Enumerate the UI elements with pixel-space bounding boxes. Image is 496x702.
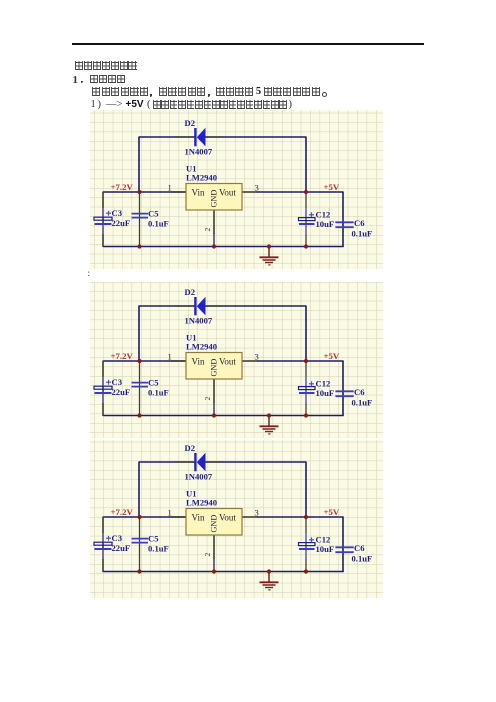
schematic 2: capacitor C12 plus sign vertical xyxy=(311,381,313,386)
schematic 1: diode D2 triangle xyxy=(197,128,206,147)
schematic 1: capacitor C12 bottom plate xyxy=(299,223,315,225)
schematic 3: wire right branch vertical through C6 xyxy=(342,517,344,572)
schematic 3: capacitor C3 plus sign horizontal xyxy=(106,537,111,539)
schematic 2: wire C12 branch vertical xyxy=(305,361,307,416)
schematic 3: IC U1 LM2940 regulator body xyxy=(186,509,242,536)
top horizontal rule xyxy=(72,43,424,45)
schematic 3: ground symbol bar 1 xyxy=(260,581,279,583)
schematic 3: diode D2 anode pin stub xyxy=(206,461,223,463)
svg-text:GND: GND xyxy=(210,515,219,533)
schematic 3: capacitor C3 bottom plate xyxy=(95,548,112,550)
svg-text:+7.2V: +7.2V xyxy=(111,507,134,517)
schematic 1: diode D2 cathode pin stub xyxy=(176,136,195,138)
schematic 2: wire left branch vertical through C3 xyxy=(102,361,104,417)
svg-text:1N4007: 1N4007 xyxy=(185,316,213,326)
schematic 1: IC U1 LM2940 regulator body xyxy=(186,184,242,211)
svg-text:C12: C12 xyxy=(316,534,331,544)
schematic 1: wire bottom ground rail xyxy=(103,246,344,248)
svg-text:Vin: Vin xyxy=(192,513,205,523)
schematic 1: U1 pin 3 stub xyxy=(242,191,258,193)
svg-text:D2: D2 xyxy=(185,287,196,297)
schematic 3: capacitor C12 top plate xyxy=(299,543,316,546)
schematic 1: junction node on ground rail at U1 pin 2 xyxy=(212,244,216,248)
schematic 1: capacitor C3 plus sign horizontal xyxy=(106,212,111,214)
svg-text:LM2940: LM2940 xyxy=(186,173,217,183)
small colon mark between schematic 1 and 2 xyxy=(88,268,91,278)
schematic 2: U1 pin 3 stub xyxy=(242,360,258,362)
schematic 3: wire U1 pin 3 to +5V rail xyxy=(257,516,344,518)
schematic 2: junction node on ground rail at U1 pin 2 xyxy=(212,413,216,417)
schematic 3: ground symbol bar 2 xyxy=(263,584,276,586)
schematic 1: capacitor C12 upper lead xyxy=(305,208,307,218)
schematic 2: capacitor C12 bottom plate xyxy=(299,392,315,394)
schematic 2: wire U1 pin 3 to +5V rail xyxy=(257,360,344,362)
schematic 2: wire right branch vertical through C6 xyxy=(342,361,344,416)
schematic 1: wire U1 pin 3 to +5V rail xyxy=(257,191,344,193)
svg-text:2: 2 xyxy=(203,553,212,557)
schematic 3: wire top rail left segment to diode D2 anode side xyxy=(139,461,195,463)
svg-text:Vout: Vout xyxy=(219,513,236,523)
schematic 2: capacitor C5 bottom plate xyxy=(132,386,149,388)
schematic 1: capacitor C3 top plate xyxy=(94,217,112,220)
schematic 3: wire U1 pin 2 to ground rail xyxy=(213,558,215,572)
schematic 3: diode D2 (1N4007) cathode bar xyxy=(194,453,196,471)
schematic 2: diode D2 (1N4007) cathode bar xyxy=(194,297,196,315)
schematic 1: junction node on ground rail at C12 branch xyxy=(304,244,308,248)
schematic 3: capacitor C3 upper lead xyxy=(102,533,104,543)
schematic 3: wire right vertical (diode rail to +5V rail) xyxy=(305,462,307,518)
svg-text:C12: C12 xyxy=(316,209,331,219)
schematic 1: wire C12 branch vertical xyxy=(305,192,307,247)
svg-text:GND: GND xyxy=(210,359,219,377)
body line 4: 1）—>+5V（为单片机和集成电路芯片大部分供电） xyxy=(91,99,96,110)
heading line 2: "1、 电源模块" xyxy=(73,74,79,86)
schematic 2: ground symbol bar 1 xyxy=(260,425,279,427)
schematic 1: wire top rail left segment to diode D2 anode side xyxy=(139,136,195,138)
schematic 3: diode D2 triangle xyxy=(197,453,206,472)
schematic 2: capacitor C3 plus sign vertical xyxy=(108,380,110,385)
svg-text:2: 2 xyxy=(203,228,212,232)
schematic 2: diode D2 cathode pin stub xyxy=(176,305,195,307)
svg-text:3: 3 xyxy=(255,183,259,193)
schematic 3: U1 pin 3 stub xyxy=(242,516,258,518)
schematic 1: wire +7.2V rail into U1 pin 1 xyxy=(103,191,186,193)
svg-text:0.1uF: 0.1uF xyxy=(148,388,169,398)
schematic 2: IC U1 LM2940 regulator body xyxy=(186,353,242,380)
schematic 3: wire left vertical (+7.2V rail to diode rail) xyxy=(138,462,140,518)
schematic 2: junction node on +7.2V rail at C5 branch xyxy=(137,359,141,363)
schematic 1: ground symbol bar 2 xyxy=(263,259,276,261)
svg-text:22uF: 22uF xyxy=(112,218,131,228)
schematic 2: capacitor C3 top plate xyxy=(94,386,112,389)
schematic 1: diode D2 anode pin stub xyxy=(206,136,223,138)
schematic 1: ground symbol tick xyxy=(268,264,270,266)
schematic 1: capacitor C12 top plate xyxy=(299,218,316,221)
schematic 3: capacitor C6 top plate xyxy=(335,546,353,548)
schematic 3: ground symbol bar 3 xyxy=(265,587,273,589)
svg-text:10uF: 10uF xyxy=(316,544,335,554)
schematic 2: ground symbol bar 2 xyxy=(263,428,276,430)
schematic 1: wire U1 pin 2 to ground rail xyxy=(213,233,215,247)
schematic 2: ground symbol stem xyxy=(268,416,270,426)
svg-text:C6: C6 xyxy=(354,218,365,228)
schematic 1: capacitor C6 bottom plate xyxy=(335,226,353,228)
schematic 2: wire C5 branch vertical xyxy=(139,361,141,416)
svg-text:2: 2 xyxy=(203,397,212,401)
svg-text:1N4007: 1N4007 xyxy=(185,147,213,157)
schematic 1: U1 pin 1 stub xyxy=(171,191,186,193)
schematic 3: capacitor C12 plus sign vertical xyxy=(311,537,313,542)
schematic 3: wire bottom ground rail xyxy=(103,571,344,573)
schematic 1: capacitor C12 lower lead xyxy=(305,224,307,234)
schematic 1: junction node on ground rail at C5 branch xyxy=(137,244,141,248)
schematic 3: capacitor C3 top plate xyxy=(94,542,112,545)
schematic 1: junction node on +7.2V rail at C5 branch xyxy=(137,190,141,194)
schematic 3: junction node on ground rail at U1 pin 2 xyxy=(212,569,216,573)
svg-text:1: 1 xyxy=(168,183,172,193)
svg-text:D2: D2 xyxy=(185,443,196,453)
schematic 2: wire right vertical (diode rail to +5V rail) xyxy=(305,306,307,362)
svg-text:C3: C3 xyxy=(112,533,123,543)
schematic 1: grid sheet background xyxy=(90,110,383,269)
schematic 2: capacitor C12 plus sign horizontal xyxy=(309,383,314,385)
schematic 2: diode D2 triangle xyxy=(197,297,206,316)
svg-text:22uF: 22uF xyxy=(112,387,131,397)
svg-text:+5V: +5V xyxy=(324,182,340,192)
schematic 3: capacitor C3 plus sign vertical xyxy=(108,536,110,541)
schematic 2: capacitor C12 top plate xyxy=(299,387,316,390)
body line 3: 利用电池供电，供电电压为，由此产生 5 种类型的电压。 xyxy=(92,87,100,96)
schematic 3: wire C5 branch vertical xyxy=(139,517,141,572)
schematic 3: capacitor C12 bottom plate xyxy=(299,548,315,550)
svg-text:0.1uF: 0.1uF xyxy=(352,229,373,239)
svg-text:10uF: 10uF xyxy=(316,219,335,229)
schematic 1: capacitor C3 plus sign vertical xyxy=(108,211,110,216)
schematic 2: wire top rail left segment to diode D2 anode side xyxy=(139,305,195,307)
svg-text:C3: C3 xyxy=(112,377,123,387)
svg-text:+5V: +5V xyxy=(324,351,340,361)
schematic 2: wire bottom ground rail xyxy=(103,415,344,417)
schematic 3: wire left branch vertical through C3 xyxy=(102,517,104,573)
schematic 3: junction node on ground rail at ground symbol xyxy=(267,569,271,573)
schematic 3: junction node on ground rail at C5 branch xyxy=(137,569,141,573)
schematic 3: capacitor C3 lower lead xyxy=(102,549,104,559)
svg-text:1: 1 xyxy=(168,352,172,362)
schematic 2: capacitor C3 plus sign horizontal xyxy=(106,381,111,383)
schematic 3: capacitor C6 bottom plate xyxy=(335,551,353,553)
schematic 2: capacitor C3 bottom plate xyxy=(95,392,112,394)
svg-text:LM2940: LM2940 xyxy=(186,342,217,352)
svg-text:C5: C5 xyxy=(148,533,159,543)
schematic 3: junction node on +7.2V rail at C5 branch xyxy=(137,515,141,519)
schematic 1: capacitor C3 lower lead xyxy=(102,224,104,234)
schematic 3: wire top rail right segment from diode D2 xyxy=(205,461,306,463)
schematic 1: wire left branch vertical through C3 xyxy=(102,192,104,248)
schematic 1: diode D2 (1N4007) cathode bar xyxy=(194,128,196,146)
svg-text:3: 3 xyxy=(255,508,259,518)
heading line 1: 智能车硬件电路 (CJK glyph blocks) xyxy=(75,61,83,70)
svg-text:C3: C3 xyxy=(112,208,123,218)
schematic 3: capacitor C12 lower lead xyxy=(305,549,307,559)
svg-text:C12: C12 xyxy=(316,378,331,388)
schematic 3: ground symbol stem xyxy=(268,572,270,582)
svg-text:GND: GND xyxy=(210,190,219,208)
svg-text:C5: C5 xyxy=(148,377,159,387)
schematic 2: capacitor C6 bottom plate xyxy=(335,395,353,397)
svg-text:1: 1 xyxy=(168,508,172,518)
schematic 2: U1 pin 2 stub xyxy=(213,379,215,403)
schematic 3: capacitor C12 upper lead xyxy=(305,533,307,543)
schematic 1: ground symbol bar 1 xyxy=(260,256,279,258)
schematic 1: capacitor C12 plus sign vertical xyxy=(311,212,313,217)
schematic 2: capacitor C12 upper lead xyxy=(305,377,307,387)
schematic 1: wire C5 branch vertical xyxy=(139,192,141,247)
schematic 3: grid sheet background xyxy=(90,440,383,598)
schematic 2: capacitor C3 lower lead xyxy=(102,393,104,403)
schematic 3: wire +7.2V rail into U1 pin 1 xyxy=(103,516,186,518)
schematic 1: wire top rail right segment from diode D2 xyxy=(205,136,306,138)
schematic 1: wire left vertical (+7.2V rail to diode rail) xyxy=(138,137,140,193)
schematic 2: U1 pin 1 stub xyxy=(171,360,186,362)
schematic 1: junction node on ground rail at ground symbol xyxy=(267,244,271,248)
schematic 1: ground symbol stem xyxy=(268,247,270,257)
svg-text:+7.2V: +7.2V xyxy=(111,351,134,361)
svg-text:+7.2V: +7.2V xyxy=(111,182,134,192)
schematic 1: U1 pin 2 stub xyxy=(213,210,215,234)
schematic 1: wire right vertical (diode rail to +5V rail) xyxy=(305,137,307,193)
schematic 2: capacitor C3 upper lead xyxy=(102,377,104,387)
svg-text:C6: C6 xyxy=(354,543,365,553)
schematic 2: wire left vertical (+7.2V rail to diode rail) xyxy=(138,306,140,362)
svg-text:1N4007: 1N4007 xyxy=(185,472,213,482)
schematic 1: capacitor C5 top plate xyxy=(132,213,149,215)
schematic 2: capacitor C6 top plate xyxy=(335,390,353,392)
schematic 2: ground symbol tick xyxy=(268,433,270,435)
schematic 3: U1 pin 2 stub xyxy=(213,535,215,559)
schematic 2: junction node on ground rail at ground symbol xyxy=(267,413,271,417)
schematic 1: capacitor C3 upper lead xyxy=(102,208,104,218)
svg-text:Vin: Vin xyxy=(192,357,205,367)
svg-text:0.1uF: 0.1uF xyxy=(148,219,169,229)
schematic 2: ground symbol bar 3 xyxy=(265,431,273,433)
schematic 1: capacitor C3 bottom plate xyxy=(95,223,112,225)
schematic 1: capacitor C5 bottom plate xyxy=(132,217,149,219)
svg-text:3: 3 xyxy=(255,352,259,362)
schematic 2: junction node on ground rail at C12 branch xyxy=(304,413,308,417)
schematic 2: diode D2 anode pin stub xyxy=(206,305,223,307)
svg-text:C5: C5 xyxy=(148,208,159,218)
svg-text:Vin: Vin xyxy=(192,188,205,198)
schematic 1: wire right branch vertical through C6 xyxy=(342,192,344,247)
svg-text:+5V: +5V xyxy=(324,507,340,517)
schematic 2: junction node on ground rail at C5 branch xyxy=(137,413,141,417)
schematic 1: capacitor C6 top plate xyxy=(335,221,353,223)
svg-text:D2: D2 xyxy=(185,118,196,128)
schematic 2: capacitor C12 lower lead xyxy=(305,393,307,403)
schematic 2: junction node on +5V rail at C12 branch xyxy=(304,359,308,363)
schematic 3: ground symbol tick xyxy=(268,589,270,591)
svg-text:Vout: Vout xyxy=(219,357,236,367)
svg-text:Vout: Vout xyxy=(219,188,236,198)
svg-text:0.1uF: 0.1uF xyxy=(148,544,169,554)
schematic 2: wire +7.2V rail into U1 pin 1 xyxy=(103,360,186,362)
schematic 2: grid sheet background xyxy=(90,282,383,438)
schematic 1: capacitor C12 plus sign horizontal xyxy=(309,214,314,216)
schematic 2: wire top rail right segment from diode D2 xyxy=(205,305,306,307)
svg-text:LM2940: LM2940 xyxy=(186,498,217,508)
schematic 1: ground symbol bar 3 xyxy=(265,262,273,264)
schematic 3: U1 pin 1 stub xyxy=(171,516,186,518)
svg-text:10uF: 10uF xyxy=(316,388,335,398)
schematic 3: capacitor C5 top plate xyxy=(132,538,149,540)
schematic 2: capacitor C5 top plate xyxy=(132,382,149,384)
svg-text:0.1uF: 0.1uF xyxy=(352,398,373,408)
svg-text:22uF: 22uF xyxy=(112,543,131,553)
schematic 3: junction node on ground rail at C12 branch xyxy=(304,569,308,573)
schematic 2: wire U1 pin 2 to ground rail xyxy=(213,402,215,416)
schematic 3: capacitor C5 bottom plate xyxy=(132,542,149,544)
svg-text:0.1uF: 0.1uF xyxy=(352,554,373,564)
schematic 3: wire C12 branch vertical xyxy=(305,517,307,572)
schematic 3: junction node on +5V rail at C12 branch xyxy=(304,515,308,519)
schematic 1: junction node on +5V rail at C12 branch xyxy=(304,190,308,194)
svg-text:C6: C6 xyxy=(354,387,365,397)
schematic 3: diode D2 cathode pin stub xyxy=(176,461,195,463)
schematic 3: capacitor C12 plus sign horizontal xyxy=(309,539,314,541)
